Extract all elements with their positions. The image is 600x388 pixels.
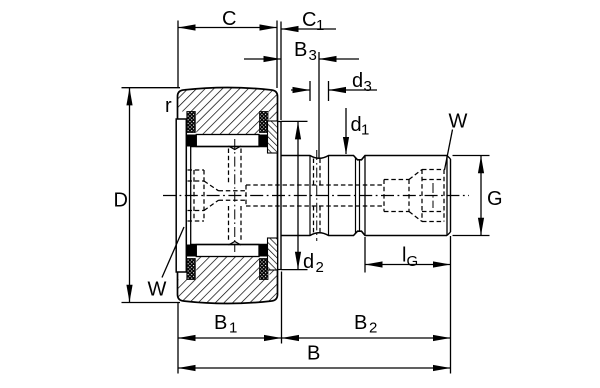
- svg-text:B: B: [307, 343, 320, 365]
- svg-text:B: B: [294, 39, 307, 61]
- svg-text:B: B: [214, 312, 227, 334]
- svg-text:W: W: [148, 279, 167, 301]
- svg-text:D: D: [114, 190, 128, 212]
- svg-text:2: 2: [316, 259, 324, 276]
- svg-text:1: 1: [229, 320, 237, 337]
- svg-text:1: 1: [361, 122, 369, 139]
- svg-text:B: B: [354, 312, 367, 334]
- svg-text:G: G: [407, 253, 419, 270]
- svg-text:d: d: [351, 114, 362, 136]
- svg-text:2: 2: [369, 320, 377, 337]
- svg-text:C: C: [222, 8, 236, 30]
- svg-text:3: 3: [364, 78, 372, 95]
- svg-text:d: d: [352, 70, 363, 92]
- svg-text:C: C: [302, 9, 316, 31]
- svg-text:r: r: [165, 95, 172, 117]
- svg-text:G: G: [487, 188, 503, 210]
- svg-text:W: W: [449, 111, 468, 133]
- svg-text:3: 3: [309, 47, 317, 64]
- svg-text:1: 1: [316, 17, 324, 34]
- svg-text:d: d: [303, 251, 314, 273]
